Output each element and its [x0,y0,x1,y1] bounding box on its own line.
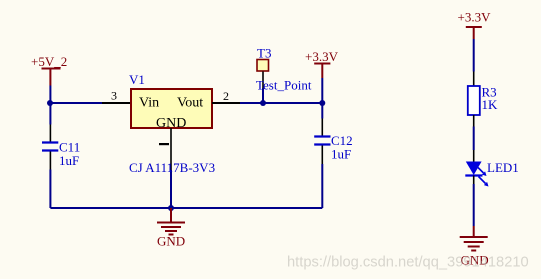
pin LED bottom [473,176,475,185]
svg-text:2: 2 [223,89,229,103]
svg-text:Vin: Vin [139,96,159,111]
ground (left GND) [157,208,185,249]
svg-text:+3.3V: +3.3V [458,10,492,25]
svg-text:1uF: 1uF [331,147,351,162]
wire GND pin to rail [170,170,172,208]
resistor R3 [468,85,498,116]
svg-text:LED1: LED1 [487,160,519,175]
node junction 3V3 [319,100,325,106]
svg-text:Vout: Vout [177,96,203,111]
wire LED to GND [473,184,475,226]
pin LED top [473,150,475,162]
svg-text:https://blog.csdn.net/qq_39914: https://blog.csdn.net/qq_3991418210 [287,255,529,271]
testpoint T3 [257,46,271,89]
wire to R3 [473,39,475,72]
node junction GND rail [168,205,174,211]
wire R3 to LED [473,127,475,151]
pin 3 stub [102,102,130,104]
node junction T3 [260,100,266,106]
capacitor C11 [42,103,80,170]
node junction left [47,100,53,106]
wire C12 to rail [321,164,323,208]
pin 2 stub [212,102,240,104]
ground (right GND) [460,226,489,268]
svg-text:V1: V1 [129,72,145,87]
svg-text:+3.3V: +3.3V [305,49,339,64]
wire net5V horizontal [50,102,102,104]
svg-text:1uF: 1uF [59,153,79,168]
capacitor C12 [314,103,352,164]
power port +5V_2 [31,54,67,86]
regulator V1 body [131,89,212,128]
pin R3 bottom [473,115,475,127]
wire 3V3 stem [321,78,323,103]
power port +3.3V (right) [458,10,492,40]
wire C11 to rail [49,170,51,209]
wire T3 to net [262,88,264,103]
svg-text:1K: 1K [482,97,499,112]
wire net3V3 horizontal [240,102,322,104]
svg-text:T3: T3 [257,46,271,61]
diode LED1 [465,160,518,187]
pin designator dash [159,143,169,145]
svg-text:GND: GND [157,234,185,249]
svg-text:3: 3 [111,89,117,103]
power port +3.3V (left) [305,49,339,78]
svg-text:CJ A1117B-3V3: CJ A1117B-3V3 [129,160,215,175]
svg-text:+5V_2: +5V_2 [31,54,67,69]
wire bottom rail [50,207,322,209]
pin R3 top [473,72,475,86]
wire +5V_2 stem [49,86,51,104]
svg-text:Test_Point: Test_Point [256,78,312,93]
pin GND of V1 [170,128,172,170]
